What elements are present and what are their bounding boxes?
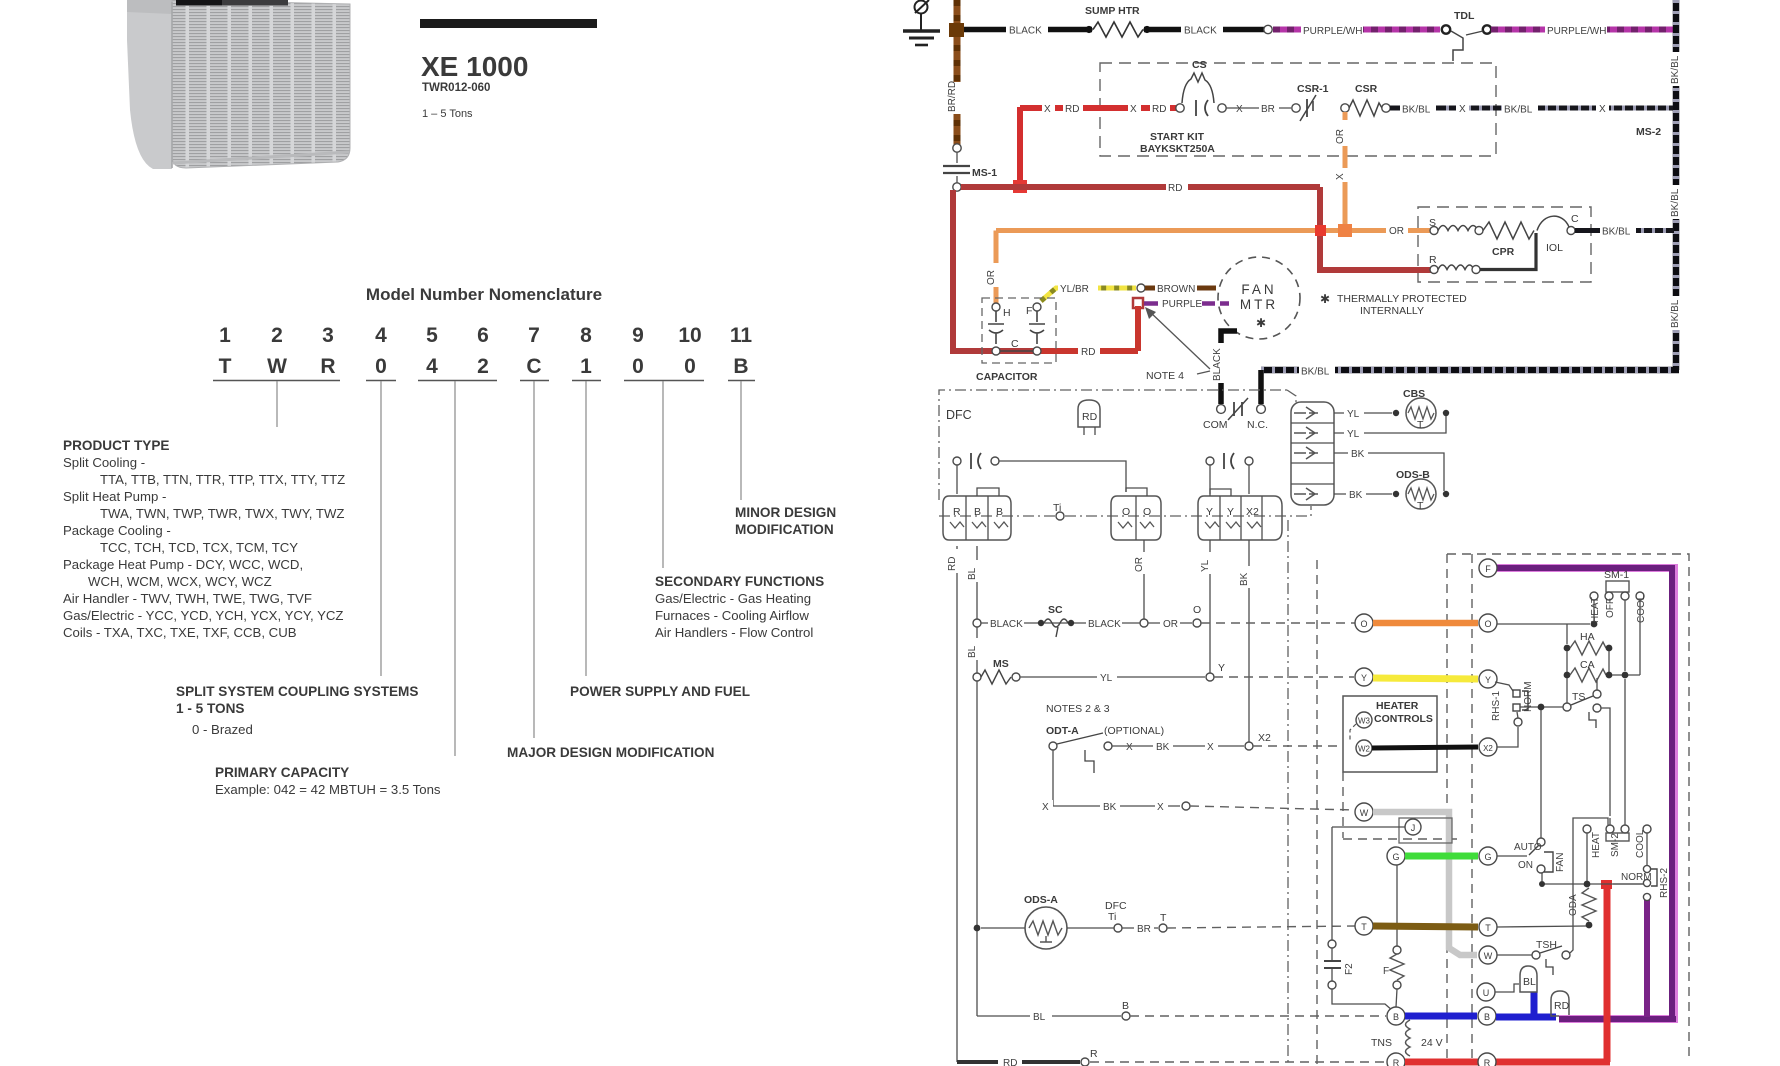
svg-text:RD: RD	[1065, 104, 1079, 115]
svg-text:Y: Y	[1485, 675, 1491, 685]
svg-text:T: T	[1485, 923, 1491, 933]
svg-text:F: F	[1026, 305, 1032, 317]
svg-text:Furnaces - Cooling Airflow: Furnaces - Cooling Airflow	[655, 608, 809, 623]
svg-text:TWA, TWN, TWP, TWR, TWX, TWY,: TWA, TWN, TWP, TWR, TWX, TWY, TWZ	[100, 506, 344, 521]
wire RD bottom row to R	[957, 1048, 1386, 1066]
svg-text:O: O	[1484, 619, 1491, 629]
wire PURPLE to fan	[1133, 297, 1229, 310]
wire BLACK fan drop	[1212, 331, 1237, 404]
selector SM-1	[1590, 569, 1647, 623]
fuse F2 branch	[1324, 827, 1393, 1011]
junction box J	[1332, 818, 1452, 843]
contact COM / N.C.	[1203, 398, 1268, 431]
svg-text:TNS: TNS	[1371, 1037, 1392, 1049]
node	[1264, 25, 1272, 33]
svg-text:ODT-A: ODT-A	[1046, 725, 1079, 737]
svg-text:W3: W3	[1358, 717, 1371, 726]
svg-text:HEAT: HEAT	[1590, 597, 1601, 623]
terminal B unit	[1387, 1007, 1405, 1025]
node red/orange crossing	[1315, 225, 1326, 236]
svg-text:ON: ON	[1518, 860, 1533, 871]
wire O line into SM-1 network	[1497, 600, 1597, 644]
wire BL blue inside stat	[1496, 1014, 1556, 1021]
svg-text:BR/RD: BR/RD	[947, 81, 958, 112]
wire BK/BL from CSR to bus (MS-2 line)	[1390, 102, 1673, 116]
svg-text:B: B	[1484, 1012, 1490, 1022]
wire PURPLE/WH right	[1491, 24, 1674, 37]
switch TSH	[1497, 818, 1608, 975]
svg-text:Y: Y	[1227, 506, 1234, 518]
boundary dashed field wiring	[1316, 560, 1318, 1066]
wire BK/BL right bus vertical	[1668, 0, 1683, 370]
svg-text:Y: Y	[1218, 662, 1225, 674]
svg-text:W: W	[1484, 951, 1493, 961]
svg-text:HEATER: HEATER	[1376, 700, 1419, 712]
switch SC row	[973, 604, 1356, 637]
svg-text:TWR012-060: TWR012-060	[422, 82, 490, 94]
terminal W stat	[1479, 946, 1497, 964]
svg-text:OR: OR	[986, 270, 997, 285]
svg-text:BLACK: BLACK	[1088, 619, 1121, 630]
switch MS-1	[943, 152, 997, 183]
svg-text:COM: COM	[1203, 419, 1228, 431]
svg-text:R: R	[1393, 1058, 1400, 1066]
svg-text:TTA, TTB, TTN, TTR, TTP, TTX,: TTA, TTB, TTN, TTR, TTP, TTX, TTY, TTZ	[100, 472, 345, 487]
svg-text:2: 2	[477, 355, 489, 378]
switch TS	[1563, 678, 1601, 728]
thermistor ODS-B	[1334, 447, 1449, 512]
svg-text:CA: CA	[1580, 659, 1595, 671]
svg-text:C: C	[526, 355, 541, 378]
thermostat dashed box edges	[1447, 554, 1689, 1060]
svg-text:Split Cooling -: Split Cooling -	[63, 455, 145, 470]
svg-text:24 V: 24 V	[1421, 1037, 1443, 1049]
svg-text:SPLIT SYSTEM COUPLING SYSTEMS: SPLIT SYSTEM COUPLING SYSTEMS	[176, 684, 418, 699]
boundary dash-dot unit edge	[1287, 520, 1289, 1066]
svg-text:0: 0	[632, 355, 644, 378]
relay RHS-1	[1491, 681, 1563, 838]
thermistor ODS-A row	[974, 894, 1356, 949]
wire WH grey	[1373, 812, 1477, 955]
svg-text:BK: BK	[1349, 490, 1363, 501]
terminal T stat	[1479, 918, 1497, 936]
svg-text:BK: BK	[1156, 742, 1170, 753]
black title bar	[420, 19, 597, 28]
wire GR green	[1405, 853, 1478, 860]
svg-text:X: X	[1207, 742, 1214, 753]
lamp RD	[1551, 991, 1569, 1016]
svg-text:✱: ✱	[1320, 292, 1330, 306]
wire RD left drop to capacitor	[953, 190, 1035, 351]
svg-text:CAPACITOR: CAPACITOR	[976, 371, 1038, 383]
terminal R unit	[1387, 1053, 1405, 1066]
svg-text:RD: RD	[1554, 1000, 1570, 1012]
svg-text:BK: BK	[1239, 572, 1250, 586]
svg-text:COOL: COOL	[1636, 594, 1647, 623]
node brown junction	[949, 23, 964, 37]
svg-text:Model Number Nomenclature: Model Number Nomenclature	[366, 285, 602, 304]
svg-text:8: 8	[580, 324, 592, 347]
svg-text:YL: YL	[1347, 409, 1360, 420]
svg-text:R: R	[1429, 254, 1437, 266]
svg-text:CONTROLS: CONTROLS	[1374, 713, 1433, 725]
svg-text:BL: BL	[1523, 976, 1536, 988]
svg-text:W2: W2	[1358, 745, 1371, 754]
terminal block O O	[1111, 488, 1161, 540]
svg-text:BL: BL	[967, 567, 978, 580]
coil CPR aux	[1438, 265, 1474, 270]
svg-text:Ti: Ti	[1053, 502, 1061, 514]
svg-text:RD: RD	[1081, 347, 1095, 358]
wire RD riser to CS line	[1017, 107, 1023, 186]
svg-text:B: B	[733, 355, 748, 378]
wire RD left column	[947, 546, 964, 1062]
svg-text:HA: HA	[1580, 631, 1595, 643]
svg-text:B: B	[974, 506, 981, 518]
svg-text:MS: MS	[993, 658, 1009, 670]
product type text block	[63, 438, 345, 640]
wire RD red riser over purple crossing	[1604, 1013, 1611, 1026]
svg-text:Air Handlers - Flow Control: Air Handlers - Flow Control	[655, 625, 813, 640]
svg-text:7: 7	[528, 324, 540, 347]
motor FAN MTR	[1218, 257, 1300, 339]
svg-text:W: W	[1360, 808, 1369, 818]
svg-text:X: X	[1335, 173, 1346, 180]
svg-text:OR: OR	[1389, 226, 1404, 237]
switch FAN AUTO/ON	[1497, 838, 1566, 881]
svg-text:Split Heat Pump -: Split Heat Pump -	[63, 489, 166, 504]
svg-text:NOTES 2 & 3: NOTES 2 & 3	[1046, 703, 1110, 715]
circle MS-1 top node	[953, 144, 961, 152]
svg-text:11: 11	[730, 324, 753, 347]
svg-text:Coils - TXA, TXC, TXE, TXF, CC: Coils - TXA, TXC, TXE, TXF, CCB, CUB	[63, 625, 297, 640]
svg-text:6: 6	[477, 324, 489, 347]
svg-text:W: W	[267, 355, 287, 378]
svg-text:1 – 5 Tons: 1 – 5 Tons	[422, 108, 473, 120]
svg-text:CPR: CPR	[1492, 246, 1515, 258]
svg-text:H: H	[1003, 307, 1011, 319]
node orange junction	[1338, 224, 1352, 237]
capacitor CS with bypass resistor	[1176, 59, 1226, 116]
svg-text:X: X	[1599, 104, 1606, 115]
svg-text:Example: 042 = 42 MBTUH = 3.5: Example: 042 = 42 MBTUH = 3.5 Tons	[215, 782, 441, 797]
svg-text:X2: X2	[1258, 732, 1271, 744]
svg-text:Gas/Electric - YCC, YCD, YCH,: Gas/Electric - YCC, YCD, YCH, YCX, YCY, …	[63, 608, 343, 623]
svg-text:1 - 5 TONS: 1 - 5 TONS	[176, 701, 245, 716]
resistor CA	[1564, 600, 1640, 682]
svg-text:Ti: Ti	[1108, 911, 1116, 923]
wire RD to CS	[1020, 102, 1176, 115]
svg-text:AUTO: AUTO	[1514, 842, 1542, 853]
resistor HA	[1564, 631, 1613, 655]
svg-text:BK/BL: BK/BL	[1504, 105, 1533, 116]
wire YL drop from Y terminal	[1209, 540, 1211, 675]
terminal G stat	[1479, 847, 1497, 865]
svg-text:NORM: NORM	[1621, 872, 1652, 883]
svg-text:X: X	[1459, 104, 1466, 115]
svg-text:PURPLE/WH: PURPLE/WH	[1303, 26, 1362, 37]
wire RD capacitor to purple terminal	[1037, 306, 1138, 358]
wire YL/BR to fan	[1041, 282, 1145, 301]
svg-text:Y: Y	[1206, 506, 1213, 518]
wire BL blue	[1405, 1013, 1477, 1020]
resistor CPR run	[1483, 222, 1534, 239]
svg-text:BLACK: BLACK	[1184, 26, 1217, 37]
svg-text:BLACK: BLACK	[1212, 348, 1223, 381]
selector SM-2	[1583, 679, 1651, 881]
svg-text:BK/BL: BK/BL	[1402, 105, 1431, 116]
node red junction FAN line	[1601, 880, 1612, 889]
wire RD red riser	[1604, 886, 1611, 1062]
svg-text:BLACK: BLACK	[1009, 26, 1042, 37]
terminal Y stat	[1479, 670, 1497, 688]
svg-text:Y: Y	[1361, 673, 1367, 683]
terminal block Y Y X2	[1198, 489, 1282, 540]
svg-text:DFC: DFC	[946, 408, 972, 422]
resistor ODA	[1497, 888, 1596, 928]
wire bus drop to N.C.	[1258, 370, 1264, 404]
wire OR to stat	[1373, 620, 1478, 627]
svg-text:TDL: TDL	[1454, 10, 1475, 22]
lamp RD inside DFC	[1078, 400, 1100, 435]
svg-text:PRODUCT TYPE: PRODUCT TYPE	[63, 438, 170, 453]
svg-text:RD: RD	[1003, 1058, 1017, 1066]
svg-text:BL: BL	[1033, 1012, 1046, 1023]
svg-text:CS: CS	[1192, 59, 1207, 71]
START KIT dashed box	[1100, 63, 1496, 156]
terminal Y unit	[1355, 668, 1373, 686]
note NOTE 4 arrow	[1145, 307, 1210, 382]
svg-text:MS-1: MS-1	[972, 167, 997, 179]
svg-text:RD: RD	[1168, 183, 1182, 194]
svg-text:F: F	[1485, 564, 1491, 574]
svg-text:MAJOR DESIGN MODIFICATION: MAJOR DESIGN MODIFICATION	[507, 745, 714, 760]
svg-text:1: 1	[219, 324, 231, 347]
coil CPR start winding	[1438, 226, 1478, 231]
svg-text:BK/BL: BK/BL	[1602, 227, 1631, 238]
svg-text:BK/BL: BK/BL	[1670, 299, 1681, 328]
svg-text:X: X	[1130, 104, 1137, 115]
svg-text:SUMP HTR: SUMP HTR	[1085, 5, 1140, 17]
svg-text:F: F	[1383, 966, 1389, 977]
svg-text:O: O	[1193, 604, 1201, 616]
svg-text:B: B	[1122, 1000, 1129, 1012]
svg-text:BROWN: BROWN	[1157, 284, 1195, 295]
svg-text:YL: YL	[1347, 429, 1360, 440]
terminal G unit	[1387, 847, 1405, 865]
svg-text:J: J	[1411, 823, 1416, 833]
svg-text:CSR: CSR	[1355, 83, 1378, 95]
product photo: condenser unit	[127, 0, 350, 169]
svg-text:X: X	[1126, 742, 1133, 753]
svg-text:XE 1000: XE 1000	[421, 51, 528, 82]
terminal O unit	[1355, 614, 1373, 632]
svg-text:START KIT: START KIT	[1150, 131, 1205, 143]
node red junction	[1013, 180, 1027, 193]
svg-text:9: 9	[632, 324, 644, 347]
svg-text:MODIFICATION: MODIFICATION	[735, 522, 834, 537]
svg-text:BK: BK	[1351, 449, 1365, 460]
svg-text:R: R	[1090, 1048, 1098, 1060]
svg-text:FAN: FAN	[1555, 853, 1566, 872]
svg-text:BAYKSKT250A: BAYKSKT250A	[1140, 143, 1215, 155]
svg-text:BK: BK	[1103, 802, 1117, 813]
svg-text:MTR: MTR	[1240, 297, 1278, 312]
terminal block R B B	[943, 488, 1011, 540]
wire BR brown to stat	[1373, 926, 1478, 927]
secondary functions	[655, 574, 824, 640]
wire PU purple F loop	[1497, 564, 1678, 1019]
svg-text:O: O	[1143, 506, 1151, 518]
svg-text:X: X	[1042, 802, 1049, 813]
wire OR horizontal to CPR S	[986, 224, 1431, 303]
wire BLACK L1	[964, 23, 1265, 37]
switch ODT-A second pole row	[1040, 750, 1355, 813]
heater controls box	[1343, 696, 1460, 839]
svg-text:TCC, TCH, TCD, TCX, TCM, TCY: TCC, TCH, TCD, TCX, TCM, TCY	[100, 540, 298, 555]
wire OR drop from O terminal	[1143, 540, 1145, 621]
overload IOL	[1480, 233, 1536, 270]
compressor CPR dashed box	[1418, 207, 1591, 282]
svg-text:BLACK: BLACK	[990, 619, 1023, 630]
wire RD red bottom	[1405, 1059, 1610, 1066]
svg-text:R: R	[320, 355, 335, 378]
svg-text:O: O	[1122, 506, 1130, 518]
svg-text:G: G	[1392, 852, 1399, 862]
wire PU purple RHS-2 drop	[1644, 900, 1650, 1017]
terminal B stat	[1478, 1007, 1496, 1025]
svg-text:COOL: COOL	[1635, 829, 1646, 858]
svg-text:T: T	[219, 355, 232, 378]
svg-text:0 - Brazed: 0 - Brazed	[192, 722, 253, 737]
wire BK drop from X2 terminal	[1248, 540, 1250, 743]
wire BK to X2 stat	[1372, 747, 1478, 748]
svg-text:NOTE 4: NOTE 4	[1146, 370, 1184, 382]
svg-text:SECONDARY FUNCTIONS: SECONDARY FUNCTIONS	[655, 574, 824, 589]
defrost control DFC dash-dot box	[939, 390, 1311, 516]
svg-text:R: R	[1484, 1058, 1491, 1066]
switch TDL	[1442, 10, 1491, 61]
svg-text:BR: BR	[1137, 924, 1151, 935]
svg-text:POWER SUPPLY AND FUEL: POWER SUPPLY AND FUEL	[570, 684, 750, 699]
svg-text:C: C	[1571, 213, 1579, 225]
svg-text:RHS-1: RHS-1	[1491, 691, 1502, 721]
node Ti	[1056, 512, 1064, 520]
svg-text:THERMALLY PROTECTED: THERMALLY PROTECTED	[1337, 293, 1467, 305]
svg-text:R: R	[953, 506, 961, 518]
svg-text:✱: ✱	[1256, 316, 1266, 330]
svg-text:X: X	[1236, 104, 1243, 115]
wire BROWN to fan	[1145, 282, 1216, 295]
svg-text:IOL: IOL	[1546, 242, 1563, 254]
svg-text:RD: RD	[1082, 411, 1098, 423]
terminal W unit	[1355, 803, 1373, 821]
svg-text:Gas/Electric - Gas Heating: Gas/Electric - Gas Heating	[655, 591, 811, 606]
wire BK/BL lower horizontal run	[1261, 364, 1679, 378]
svg-text:G: G	[1484, 852, 1491, 862]
svg-text:T: T	[1417, 500, 1424, 512]
svg-text:OFF: OFF	[1605, 598, 1616, 618]
svg-text:OR: OR	[1335, 129, 1346, 144]
lamp BL	[1520, 966, 1537, 992]
svg-text:RD: RD	[1152, 104, 1166, 115]
switch MS row	[973, 658, 1354, 684]
svg-text:O: O	[1360, 619, 1367, 629]
connector plug strip	[1291, 402, 1334, 505]
capacitor box H F C	[976, 298, 1056, 383]
terminal X2 stat	[1479, 738, 1497, 756]
svg-text:YL: YL	[1200, 559, 1211, 572]
resistor G-B branch	[1383, 865, 1404, 1007]
switch ODT-A row	[1046, 703, 1341, 773]
wire OR drop from CSR-1 junction	[1335, 112, 1352, 228]
svg-text:ODS-A: ODS-A	[1024, 894, 1058, 906]
svg-text:PRIMARY CAPACITY: PRIMARY CAPACITY	[215, 765, 349, 780]
svg-text:BK/BL: BK/BL	[1301, 367, 1330, 378]
svg-text:PURPLE: PURPLE	[1162, 299, 1202, 310]
ground	[903, 0, 940, 45]
terminal O stat	[1479, 614, 1497, 632]
svg-text:4: 4	[426, 355, 438, 378]
svg-text:CSR-1: CSR-1	[1297, 83, 1329, 95]
thermistor CBS	[1334, 388, 1449, 440]
svg-text:OR: OR	[1134, 557, 1145, 572]
svg-text:F2: F2	[1344, 963, 1355, 975]
svg-text:0: 0	[684, 355, 696, 378]
svg-text:YL: YL	[1100, 673, 1113, 684]
svg-text:C: C	[1011, 338, 1019, 350]
wire FAN common line	[1539, 881, 1644, 888]
svg-text:MINOR DESIGN: MINOR DESIGN	[735, 505, 836, 520]
svg-text:N.C.: N.C.	[1247, 419, 1268, 431]
terminal U stat	[1477, 983, 1495, 1001]
leader lines	[277, 381, 741, 756]
svg-text:RD: RD	[947, 557, 958, 571]
svg-text:RHS-2: RHS-2	[1659, 868, 1670, 898]
svg-text:2: 2	[271, 324, 283, 347]
svg-text:U: U	[1483, 988, 1490, 998]
svg-text:BK/BL: BK/BL	[1670, 55, 1681, 84]
resistor CSR	[1341, 83, 1390, 116]
wire TS lower to SM-2	[1601, 708, 1610, 816]
svg-text:T: T	[1417, 419, 1424, 431]
underlines	[213, 380, 755, 382]
svg-text:4: 4	[375, 324, 387, 347]
terminal F stat	[1479, 559, 1497, 577]
wire PURPLE/WH left	[1273, 24, 1440, 37]
svg-text:SM-1: SM-1	[1604, 569, 1629, 581]
svg-text:5: 5	[426, 324, 438, 347]
transformer TNS	[1371, 1020, 1443, 1056]
svg-text:Air Handler - TWV, TWH, TWE, T: Air Handler - TWV, TWH, TWE, TWG, TVF	[63, 591, 312, 606]
svg-text:SC: SC	[1048, 604, 1063, 616]
svg-text:OR: OR	[1163, 619, 1178, 630]
wire U to lamp	[1495, 984, 1519, 992]
capacitor DFC left	[953, 453, 1126, 494]
terminal T unit	[1355, 917, 1373, 935]
wire BL bottom row to B	[977, 1000, 1386, 1023]
svg-text:BL: BL	[967, 645, 978, 658]
svg-text:Package Heat Pump - DCY, WCC,: Package Heat Pump - DCY, WCC, WCD,	[63, 557, 303, 572]
svg-text:X: X	[1157, 802, 1164, 813]
relay RHS-2	[1613, 865, 1670, 900]
wire jumper to C	[1537, 216, 1569, 230]
svg-text:WCH, WCM, WCX, WCY, WCZ: WCH, WCM, WCX, WCY, WCZ	[88, 574, 272, 589]
svg-text:X2: X2	[1246, 506, 1259, 518]
svg-text:(OPTIONAL): (OPTIONAL)	[1104, 725, 1164, 737]
terminal R stat	[1478, 1053, 1496, 1066]
svg-text:X2: X2	[1483, 744, 1493, 753]
